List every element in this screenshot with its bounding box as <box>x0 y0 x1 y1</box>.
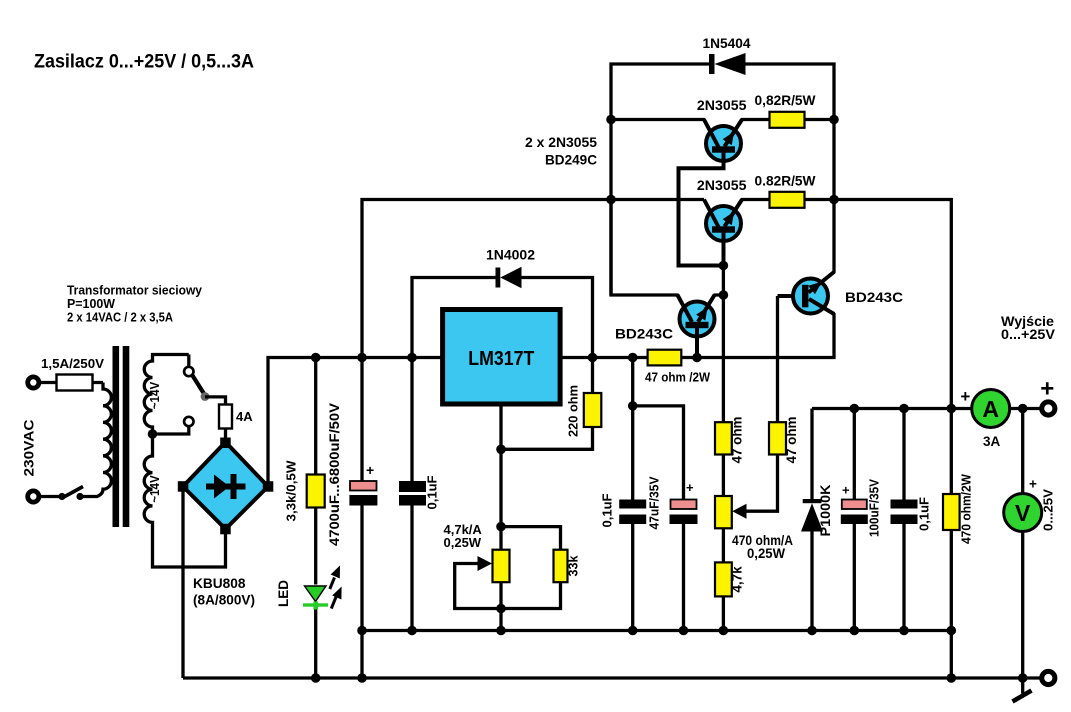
resistor 4,7k <box>715 562 732 596</box>
svg-text:0...25V: 0...25V <box>1041 489 1056 531</box>
svg-text:0,1uF: 0,1uF <box>425 475 440 509</box>
svg-text:0,25W: 0,25W <box>444 535 482 550</box>
resistor 47 ohm/2W <box>648 350 682 366</box>
svg-text:220 ohm: 220 ohm <box>566 385 581 437</box>
svg-text:BD243C: BD243C <box>615 327 673 342</box>
wire unreg rail riser <box>362 200 704 358</box>
svg-text:P1000K: P1000K <box>818 484 833 536</box>
node ADJ/220ohm <box>496 445 506 455</box>
svg-text:3A: 3A <box>983 434 1001 449</box>
LED arrows <box>330 578 335 590</box>
wire LM317 output <box>560 299 834 358</box>
svg-text:1N5404: 1N5404 <box>703 35 751 51</box>
wire output node to ammeter riser <box>834 200 951 409</box>
svg-text:0,82R/5W: 0,82R/5W <box>755 92 817 108</box>
svg-text:230VAC: 230VAC <box>21 420 37 477</box>
node ADJ/33k <box>496 522 506 532</box>
svg-text:0.82R/5W: 0.82R/5W <box>755 173 817 189</box>
resistor 47 ohm left <box>715 422 732 454</box>
node pot bottom <box>496 604 506 614</box>
resistor 3,3k/0,5W <box>314 358 317 475</box>
fuse F2 4A <box>219 405 232 429</box>
svg-text:4A: 4A <box>236 409 253 424</box>
bridge rectifier KBU808 <box>183 442 268 529</box>
fuse F1 1,5A/250V <box>57 375 93 391</box>
resistor 220 ohm <box>591 358 594 394</box>
switch tap lever <box>193 376 205 395</box>
terminal output plus <box>1042 402 1055 415</box>
node 0,1uF bottom <box>407 626 417 636</box>
switch tap selector lower contact <box>184 417 193 426</box>
svg-text:+: + <box>686 480 694 495</box>
svg-text:Zasilacz 0...+25V / 0,5...3A: Zasilacz 0...+25V / 0,5...3A <box>34 52 254 73</box>
svg-text:P=100W: P=100W <box>67 297 115 311</box>
svg-text:47 ohm /2W: 47 ohm /2W <box>645 370 711 385</box>
node bridge bottom <box>220 524 231 535</box>
ground symbol <box>1021 678 1024 694</box>
svg-text:BD249C: BD249C <box>545 152 597 168</box>
svg-text:0,25W: 0,25W <box>747 546 785 561</box>
diode 1N5404 <box>611 64 710 295</box>
svg-text:33k: 33k <box>567 556 581 577</box>
resistor 47 ohm right <box>769 422 786 454</box>
ammeter A <box>972 390 1010 428</box>
svg-text:+: + <box>960 387 970 406</box>
svg-text:100uF/35V: 100uF/35V <box>867 479 882 537</box>
node driver emitter <box>719 290 729 300</box>
capacitor 0,1uF input <box>410 358 413 482</box>
node base bus <box>719 261 729 271</box>
svg-text:1N4002: 1N4002 <box>486 248 535 263</box>
capacitor 4700uF...6800uF/50V <box>360 358 363 482</box>
potentiometer 4,7k/A 0,25W <box>493 550 510 583</box>
node link rails <box>357 673 367 683</box>
terminal output minus <box>1042 671 1055 684</box>
node emitter rail lower <box>829 195 839 205</box>
transformer secondary winding 1 ~14V <box>144 355 225 568</box>
svg-text:~14V: ~14V <box>148 475 162 503</box>
wire bottom ground rail <box>183 676 1043 679</box>
terminal mains L <box>28 377 39 388</box>
svg-text:47 ohm: 47 ohm <box>730 417 745 464</box>
diode 1N4002 <box>412 278 497 358</box>
svg-text:4700uF...6800uF/50V: 4700uF...6800uF/50V <box>326 402 342 546</box>
node LED bottom <box>311 673 321 683</box>
wire bridge plus up to main rail <box>268 358 443 487</box>
switch mains S1 <box>76 493 83 500</box>
wire LM317 ADJ <box>499 404 502 550</box>
svg-text:0,1uF: 0,1uF <box>917 497 932 531</box>
svg-text:0,1uF: 0,1uF <box>600 493 615 527</box>
terminal mains N <box>28 491 39 502</box>
svg-text:+: + <box>842 483 850 498</box>
node 3,3k top <box>311 353 321 363</box>
svg-text:2N3055: 2N3055 <box>697 97 747 113</box>
svg-text:2N3055: 2N3055 <box>697 177 747 193</box>
node driver base <box>692 353 702 363</box>
svg-text:2 x 14VAC / 2 x 3,5A: 2 x 14VAC / 2 x 3,5A <box>67 311 173 325</box>
node unreg/1N5404 left <box>606 115 616 125</box>
capacitor 0,1uF output <box>902 409 905 500</box>
switch tap selector upper contact <box>184 367 193 376</box>
node output riser <box>947 404 957 414</box>
capacitor 100uF/35V <box>853 409 856 500</box>
LED <box>305 586 327 602</box>
transformer core <box>113 346 120 527</box>
output rail <box>812 407 1044 410</box>
node voltmeter branch <box>1018 404 1028 414</box>
svg-text:V: V <box>1015 500 1031 526</box>
op-amp regulator U1 LM317T <box>443 310 560 405</box>
svg-text:47uF/35V: 47uF/35V <box>647 476 662 529</box>
wire bridge minus down to ground rail <box>181 487 184 679</box>
node 0,1uF top <box>407 353 417 363</box>
svg-text:0...+25V: 0...+25V <box>1001 327 1055 342</box>
svg-text:~14V: ~14V <box>148 381 162 409</box>
svg-text:3,3k/0,5W: 3,3k/0,5W <box>284 460 299 522</box>
capacitor 0,1uF out <box>619 500 646 509</box>
node pot/mid rail <box>496 626 506 636</box>
wire caps branch <box>631 358 634 500</box>
svg-text:47 ohm: 47 ohm <box>784 417 799 464</box>
node bridge right <box>263 481 274 492</box>
node center tap <box>148 429 158 439</box>
svg-text:LM317T: LM317T <box>468 348 534 370</box>
diode P1000K <box>810 409 813 500</box>
node ground/V meter <box>1018 673 1028 683</box>
svg-text:LED: LED <box>276 580 291 607</box>
svg-text:A: A <box>982 396 999 422</box>
wire terminal to fuse F1 <box>39 381 103 384</box>
svg-text:KBU808: KBU808 <box>193 575 246 591</box>
wire lever to fuse F2 <box>205 397 226 443</box>
svg-text:(8A/800V): (8A/800V) <box>193 593 255 608</box>
node bridge top <box>220 438 231 449</box>
svg-text:470 ohm/2W: 470 ohm/2W <box>959 473 974 544</box>
potentiometer 470 ohm/A 0,25W <box>715 496 732 528</box>
resistor 33k <box>501 527 561 550</box>
resistor 470 ohm/2W <box>950 409 953 495</box>
svg-text:+: + <box>1040 376 1054 403</box>
svg-text:1,5A/250V: 1,5A/250V <box>41 356 104 371</box>
transformer primary winding <box>82 383 111 497</box>
voltmeter V <box>1004 494 1042 532</box>
wire mid ground rail <box>362 629 951 632</box>
svg-text:4,7k: 4,7k <box>730 566 745 593</box>
svg-text:BD243C: BD243C <box>845 290 903 305</box>
pot wiper arrow <box>499 582 502 608</box>
capacitor 47uF/35V <box>671 500 697 510</box>
node out/220ohm <box>588 353 598 363</box>
node bridge left <box>178 481 189 492</box>
node 4700uF bottom on mid rail <box>357 626 367 636</box>
svg-text:2 x 2N3055: 2 x 2N3055 <box>525 134 597 150</box>
node 4700uF top <box>357 353 367 363</box>
svg-text:+: + <box>366 462 374 478</box>
svg-text:Transformator sieciowy: Transformator sieciowy <box>67 284 202 298</box>
node emitter rail upper <box>829 115 839 125</box>
svg-text:+: + <box>1029 477 1037 492</box>
node 47ohm/caps branch <box>628 353 638 363</box>
